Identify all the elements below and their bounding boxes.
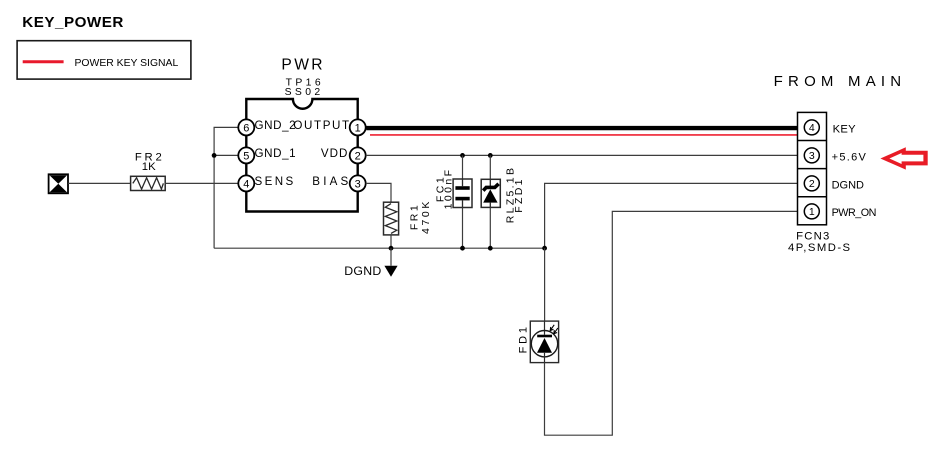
wire FR2 to IC pin 4 (SENS) <box>165 182 238 184</box>
pin name OUTPUT <box>293 119 350 132</box>
VDD wire (pin2 to connector pin 3, +5.6V) <box>366 154 805 156</box>
red POWER KEY SIGNAL wire <box>370 134 798 136</box>
wire key input to FR2 <box>68 182 131 184</box>
net label +5.6V <box>832 151 868 163</box>
connector pin 3 <box>804 148 819 163</box>
pin 4 circle <box>238 175 254 191</box>
svg-text:SS02: SS02 <box>285 87 324 98</box>
svg-text:POWER KEY SIGNAL: POWER KEY SIGNAL <box>75 58 179 69</box>
resistor FR1 <box>384 202 399 235</box>
title KEY_POWER <box>22 14 124 31</box>
resistor FR2 <box>131 176 166 190</box>
svg-text:2: 2 <box>809 178 815 190</box>
svg-text:KEY: KEY <box>833 123 857 135</box>
svg-text:100nF: 100nF <box>443 168 455 210</box>
svg-text:FD1: FD1 <box>518 324 530 353</box>
legend red line POWER KEY SIGNAL <box>23 60 64 63</box>
label TP16 <box>286 78 324 89</box>
wire pin5 to bus <box>214 154 238 156</box>
svg-text:PWR_ON: PWR_ON <box>832 207 876 219</box>
junction FR1/rail <box>389 246 394 251</box>
junction VDD/FC1 <box>460 153 465 158</box>
wire pin3 BIAS to FR1 <box>366 183 391 202</box>
svg-text:3: 3 <box>809 150 815 162</box>
svg-text:1: 1 <box>809 206 815 218</box>
svg-text:GND_2: GND_2 <box>255 119 297 132</box>
thick KEY signal wire (pin1 OUTPUT to connector pin 4) <box>366 126 804 130</box>
pin name GND_2 <box>255 119 297 132</box>
red arrow pointing at +5.6V <box>880 147 927 169</box>
legend box <box>17 41 191 79</box>
svg-text:GND_1: GND_1 <box>255 147 297 160</box>
svg-text:1K: 1K <box>142 161 156 173</box>
wire VDD to FZD1 <box>489 155 491 186</box>
pin name GND_1 <box>255 147 297 160</box>
connector pin 4 <box>804 120 819 135</box>
pin name SENS <box>255 175 296 188</box>
svg-text:FR1: FR1 <box>409 203 421 230</box>
pin name VDD <box>321 147 348 160</box>
svg-text:DGND: DGND <box>344 264 381 278</box>
svg-text:4P,SMD-S: 4P,SMD-S <box>788 242 852 254</box>
svg-text:KEY_POWER: KEY_POWER <box>22 14 124 31</box>
label SS02 <box>285 87 324 98</box>
svg-text:VDD: VDD <box>321 147 348 160</box>
zener diode FZD1 <box>481 179 500 208</box>
svg-text:3: 3 <box>355 178 361 190</box>
pin 6 circle <box>238 119 254 135</box>
label 4P,SMD-S <box>788 242 852 254</box>
wire FD1 to PWR_ON (connector pin1) <box>545 211 805 435</box>
wire VDD to FC1 <box>462 155 464 188</box>
label FCN3 <box>796 231 830 243</box>
label DGND <box>344 264 381 278</box>
wire FC1 to rail <box>462 208 464 249</box>
photodiode FD1 <box>530 321 558 363</box>
label RLZ5.1B FZD1 (rotated) <box>505 166 526 224</box>
off-page connector bowtie (key input) <box>49 174 68 193</box>
svg-text:2: 2 <box>355 150 361 162</box>
IC PWR TP16 SS02 body <box>246 99 357 212</box>
pin 5 circle <box>238 147 254 163</box>
svg-text:PWR: PWR <box>281 57 325 74</box>
ground rail (bottom DGND rail) <box>214 247 544 249</box>
svg-text:FZD1: FZD1 <box>513 177 525 212</box>
label FROM MAIN <box>774 73 907 90</box>
pin 2 circle <box>350 147 366 163</box>
label FC1 100nF (rotated) <box>435 168 455 210</box>
label FD1 (rotated) <box>518 324 530 353</box>
net label KEY <box>833 123 857 135</box>
svg-text:+5.6V: +5.6V <box>832 151 868 163</box>
connector FCN3 body <box>798 112 827 224</box>
label PWR <box>281 57 325 74</box>
wire rail to FD1 <box>544 248 546 321</box>
legend label <box>75 58 179 69</box>
svg-text:DGND: DGND <box>832 179 864 191</box>
svg-text:BIAS: BIAS <box>312 175 351 188</box>
svg-text:6: 6 <box>243 122 249 134</box>
svg-text:FCN3: FCN3 <box>796 231 830 243</box>
label FR2 1K <box>135 152 165 173</box>
pin 1 circle <box>350 119 366 135</box>
wire FR1 bottom to rail <box>390 235 392 248</box>
svg-text:FROM MAIN: FROM MAIN <box>774 73 907 90</box>
junction on bus at pin5 row <box>212 153 217 158</box>
pin 3 circle <box>350 175 366 191</box>
capacitor FC1 <box>453 179 472 208</box>
svg-text:4: 4 <box>809 122 815 134</box>
wire connector DGND (pin2) to rail <box>545 183 805 248</box>
label FR1 470K (rotated) <box>409 199 433 234</box>
svg-text:470K: 470K <box>420 199 432 234</box>
junction FC1/rail <box>460 246 465 251</box>
svg-text:5: 5 <box>243 150 249 162</box>
net label DGND <box>832 179 864 191</box>
net label PWR_ON <box>832 207 876 219</box>
junction VDD/FZD1 <box>488 153 493 158</box>
pin name BIAS <box>312 175 351 188</box>
ground DGND symbol <box>384 248 397 277</box>
connector pin 1 <box>804 204 819 219</box>
svg-text:OUTPUT: OUTPUT <box>293 119 350 132</box>
junction DGND/rail <box>542 246 547 251</box>
svg-text:1: 1 <box>355 122 361 134</box>
wire vertical ground bus at x=214 <box>214 127 238 248</box>
junction FZD1/rail <box>488 246 493 251</box>
svg-text:4: 4 <box>243 178 249 190</box>
svg-text:SENS: SENS <box>255 175 296 188</box>
wire FZD1 to rail <box>489 208 491 249</box>
connector pin 2 <box>804 176 819 191</box>
